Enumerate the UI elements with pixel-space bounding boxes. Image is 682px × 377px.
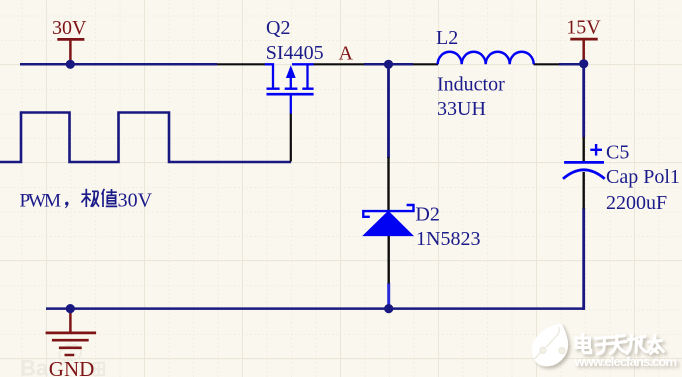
svg-text:SI4405: SI4405 <box>266 42 324 64</box>
junction node: 15V on top rail <box>579 59 588 68</box>
inductor L2 <box>438 52 534 64</box>
plus sign <box>590 149 602 151</box>
right leg <box>306 64 308 87</box>
wire: diode bottom short segment <box>387 283 390 309</box>
wire: node A vertical to diode <box>387 64 390 158</box>
pin: L2 right <box>534 63 560 65</box>
wire: bottom rail <box>46 307 585 310</box>
svg-text:15V: 15V <box>566 17 601 39</box>
net label: PWM, extreme 30V <box>20 189 153 212</box>
wire: top rail left segment <box>20 63 217 66</box>
gate lead <box>290 94 292 113</box>
wire: top rail right segment to 15V <box>559 63 584 66</box>
top plate <box>564 161 604 164</box>
CJK char zhi (value) drawn as strokes <box>102 189 118 207</box>
faint baike watermark bottom-left <box>20 345 104 377</box>
wire: top rail node A segment <box>364 63 413 66</box>
pin: D2 cathode (top) <box>387 157 389 211</box>
anode triangle <box>363 211 412 235</box>
junction node: 30V on top rail <box>66 60 75 69</box>
junction node: GND on bottom rail <box>66 304 75 313</box>
svg-text:Cap Pol1: Cap Pol1 <box>606 166 680 188</box>
power port 15V <box>566 17 601 64</box>
svg-text:A: A <box>339 42 354 64</box>
power port 30V <box>52 17 87 64</box>
svg-text:GND: GND <box>49 357 95 377</box>
right stub <box>292 63 314 65</box>
wire: 15V rail vertical lower <box>582 208 585 310</box>
svg-text:Q2: Q2 <box>266 17 290 39</box>
svg-text:30V: 30V <box>118 189 153 211</box>
svg-text:Inductor: Inductor <box>437 74 505 96</box>
svg-text:www.elecfans.com: www.elecfans.com <box>574 354 678 369</box>
pin: C5 top <box>583 137 585 162</box>
svg-text:30V: 30V <box>52 17 87 39</box>
pin: L2 left <box>413 63 438 65</box>
svg-text:2200uF: 2200uF <box>606 192 667 214</box>
pin: Q2 gate <box>290 113 292 161</box>
svg-text:PWM: PWM <box>20 190 62 211</box>
transistor Q2 SI4405 (P-MOSFET) <box>265 64 314 113</box>
source/body/drain dashes <box>267 87 280 89</box>
pin: C5 bottom <box>583 172 585 209</box>
watermark elecfans logo <box>532 323 568 366</box>
svg-text:D2: D2 <box>415 204 439 226</box>
body arrow head <box>286 65 296 78</box>
wire: 15V rail vertical upper <box>582 64 585 137</box>
diode D2 1N5823 (schottky) <box>363 205 413 370</box>
wire: PWM square wave <box>0 113 291 163</box>
junction node: A on top rail <box>384 60 393 69</box>
pin: Q2 source (right) <box>314 63 365 65</box>
pin: D2 anode (bottom) <box>388 235 390 284</box>
svg-text:C5: C5 <box>606 141 629 163</box>
capacitor C5 (polarized) <box>563 144 605 179</box>
ground GND <box>46 309 97 377</box>
curved bottom plate <box>563 170 605 179</box>
svg-text:1N5823: 1N5823 <box>416 228 480 250</box>
channel bar <box>267 93 314 96</box>
cathode bar with schottky hooks <box>363 205 413 217</box>
junction node: D2 on bottom rail <box>384 304 393 313</box>
CJK char ji (extreme) drawn as strokes <box>82 189 100 207</box>
svg-text:33UH: 33UH <box>437 98 486 120</box>
watermark text: dianzi fashaoyou (stylized) <box>576 335 664 355</box>
body arrow shaft <box>290 68 292 89</box>
svg-text:L2: L2 <box>436 27 458 49</box>
pin: Q2 drain (left) <box>217 63 265 65</box>
svg-text:Ba: Ba <box>20 356 49 377</box>
fullwidth comma <box>65 202 68 206</box>
left leg + stub <box>265 64 273 87</box>
